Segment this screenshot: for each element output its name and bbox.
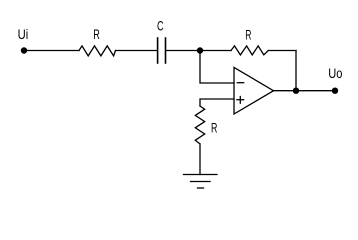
svg-text:R: R <box>93 26 100 42</box>
wire node A to R2 <box>200 50 231 52</box>
node B output junction <box>293 88 299 94</box>
wire R3 to ground <box>199 144 201 175</box>
wire input to R1 <box>26 50 79 52</box>
output terminal Uo <box>332 88 338 94</box>
op-amp U1 <box>234 67 274 114</box>
svg-text:R: R <box>245 26 251 42</box>
svg-text:Uo: Uo <box>328 65 342 81</box>
wire feedback riser down to output node <box>295 51 297 91</box>
resistor R2 feedback <box>231 46 268 55</box>
resistor R1 <box>79 46 116 56</box>
wire op-amp output to node B <box>274 90 297 92</box>
wire R1 to C1 <box>116 50 158 52</box>
op-amp noninverting pin mark <box>237 99 244 101</box>
capacitor C1 <box>157 38 159 63</box>
wire C1 to node A <box>166 50 200 52</box>
svg-text:C: C <box>157 18 164 34</box>
wire noninverting input to R3 <box>200 99 234 106</box>
input terminal Ui <box>21 47 27 53</box>
ground <box>184 174 218 176</box>
wire output node to terminal <box>296 90 335 92</box>
wire R2 to corner <box>268 50 296 52</box>
svg-text:Ui: Ui <box>18 26 29 42</box>
wire node A down to inverting input <box>200 53 234 83</box>
node A junction <box>197 47 203 53</box>
svg-text:R: R <box>211 120 217 136</box>
resistor R3 <box>195 106 204 144</box>
op-amp inverting pin mark <box>237 82 243 84</box>
